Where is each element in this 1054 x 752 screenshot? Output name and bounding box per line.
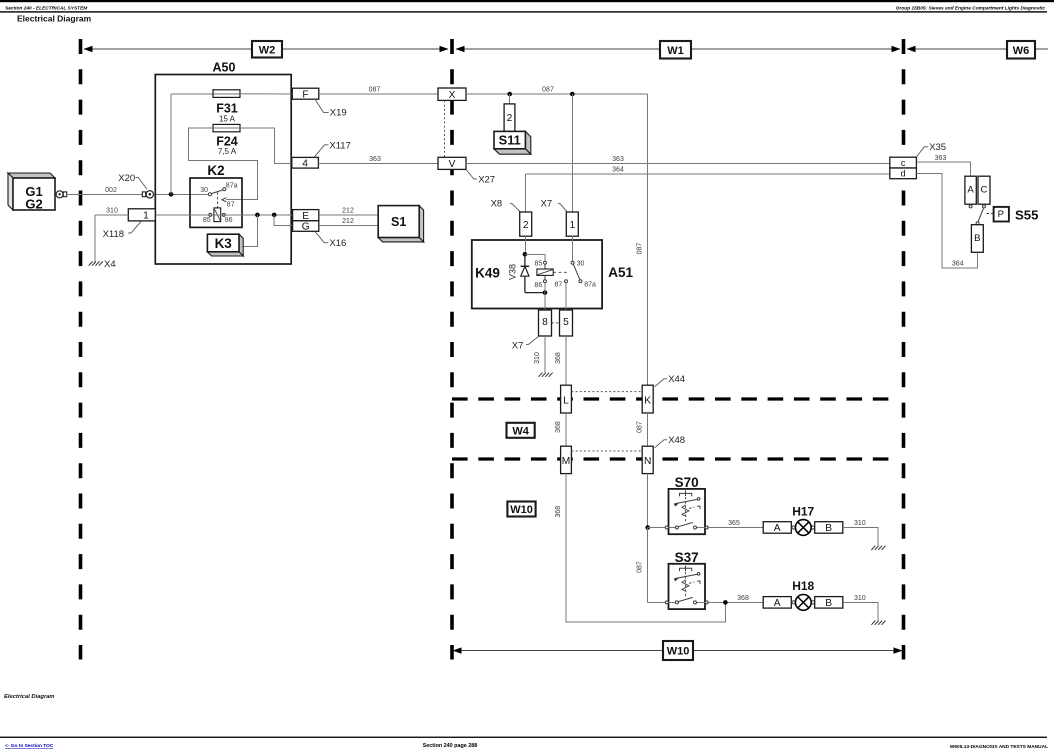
- S55 switch pins: [969, 205, 972, 208]
- svg-text:8: 8: [542, 317, 548, 328]
- node junction to X7-1: [570, 92, 575, 97]
- svg-text:V: V: [449, 159, 456, 170]
- svg-text:<- Go to Section TOC: <- Go to Section TOC: [5, 743, 54, 749]
- svg-text:H18: H18: [792, 579, 814, 593]
- wire X8-2 into A51: [525, 236, 527, 254]
- dashed link pins 8-5: [552, 322, 560, 324]
- switch S1 3-D box: [419, 206, 423, 242]
- wire down to S11 connector 2: [509, 94, 511, 104]
- connector X7 pin 5: [560, 310, 573, 336]
- wire 363 V to connector c: [466, 162, 890, 164]
- wire into S37: [648, 601, 669, 603]
- svg-text:K: K: [644, 395, 651, 406]
- label X48: [655, 440, 668, 448]
- connector S55 pin B: [971, 225, 983, 253]
- svg-text:K49: K49: [475, 266, 500, 281]
- span arrow W10 bottom: [453, 650, 902, 652]
- svg-text:X27: X27: [478, 175, 495, 186]
- K2 pin 85: [209, 213, 212, 216]
- connector H17 pin A: [763, 522, 791, 534]
- svg-text:Section 240 page 288: Section 240 page 288: [423, 743, 478, 749]
- K2 actuator dashed link: [217, 192, 219, 208]
- span arrow W1: [456, 48, 900, 50]
- connector 2 of S11: [504, 104, 515, 131]
- wire 087 K to N: [647, 413, 649, 446]
- connector X48 pin M: [561, 446, 572, 473]
- S37 boundary pins: [665, 601, 668, 604]
- connector H17 pin B: [815, 522, 843, 534]
- wire 212 G to S1: [319, 224, 378, 226]
- wire down to X8 pin 2: [525, 174, 527, 212]
- label X117: [314, 145, 328, 157]
- label X35: [916, 147, 928, 157]
- svg-text:X20: X20: [118, 173, 135, 184]
- wire X7-1 into A51 pin 30: [571, 236, 573, 261]
- relay module A51 outline: [472, 240, 602, 309]
- harness boundary dashed line W10 top: [452, 457, 889, 460]
- node junction diode branch: [523, 252, 528, 257]
- K2 pin 86: [222, 213, 225, 216]
- connector X on W2/W1 boundary: [438, 88, 466, 100]
- A51 pin 87: [565, 280, 568, 283]
- harness boundary dashed line W1/W6: [902, 39, 906, 660]
- connector X44 pin L: [561, 385, 572, 413]
- connector S55 pin P: [994, 207, 1009, 222]
- ground H18: [871, 621, 875, 625]
- node junction coil return: [543, 290, 548, 295]
- svg-text:363: 363: [369, 156, 381, 163]
- svg-text:087: 087: [542, 86, 554, 93]
- S70 contacts: [669, 527, 676, 529]
- wire 368 L to M: [565, 413, 567, 446]
- wire X118 row through K2 coil to connector E: [155, 214, 292, 216]
- S37 internal mechanism: [680, 568, 692, 571]
- wire 364 X8 to connector d: [526, 173, 890, 175]
- ground below pin 8: [539, 373, 543, 377]
- wire 087 junction down to S37: [647, 528, 649, 603]
- svg-text:S37: S37: [675, 550, 699, 565]
- svg-text:W4: W4: [512, 425, 529, 437]
- connector X7 pin 1: [566, 212, 578, 236]
- A51 actuator dashed link: [553, 271, 569, 273]
- wire down to X7 pin 1: [571, 94, 573, 212]
- svg-text:W605.13-DIAGNOSIS AND TESTS MA: W605.13-DIAGNOSIS AND TESTS MANUAL: [950, 744, 1048, 750]
- svg-text:30: 30: [577, 260, 585, 267]
- svg-text:2: 2: [523, 220, 529, 231]
- dotted link X to V: [444, 100, 446, 157]
- svg-text:A: A: [774, 598, 781, 609]
- label X16: [315, 232, 328, 243]
- svg-text:15 A: 15 A: [219, 114, 236, 123]
- dotted link L-K: [571, 391, 642, 393]
- svg-text:363: 363: [935, 155, 947, 162]
- wire junction to S70: [648, 527, 669, 529]
- A51 coil pin 86: [544, 280, 547, 283]
- connector V on W2/W1 boundary: [438, 157, 466, 169]
- svg-text:Group 15B05: Sieves and Engine: Group 15B05: Sieves and Engine Compartme…: [896, 5, 1046, 11]
- svg-text:2: 2: [507, 113, 513, 124]
- svg-text:002: 002: [105, 187, 117, 194]
- svg-text:87: 87: [227, 201, 235, 208]
- harness boundary dashed line W2 left: [79, 39, 83, 660]
- svg-text:363: 363: [612, 156, 624, 163]
- wire junction down to K3: [243, 215, 257, 247]
- S55 actuator dashed link: [987, 213, 994, 215]
- svg-text:W2: W2: [259, 44, 276, 56]
- switch S11 3-D box: [525, 131, 530, 154]
- connector X48 pin N: [642, 446, 653, 473]
- svg-text:S55: S55: [1015, 207, 1038, 222]
- svg-text:G2: G2: [25, 197, 42, 212]
- wire 363 connector 4 to V: [318, 162, 438, 164]
- node junction to S11: [507, 92, 512, 97]
- svg-text:364: 364: [612, 167, 624, 174]
- span arrow W6: [907, 48, 1048, 50]
- svg-text:30: 30: [200, 187, 208, 194]
- connector d on W1/W6 boundary: [890, 168, 917, 179]
- label W2: [252, 41, 282, 58]
- svg-text:B: B: [825, 598, 832, 609]
- harness boundary dashed line W2/W1: [450, 39, 454, 660]
- label X27: [466, 169, 477, 179]
- generator G1 G2: [8, 173, 55, 178]
- svg-text:368: 368: [555, 421, 562, 433]
- svg-text:85: 85: [535, 260, 543, 267]
- svg-text:S70: S70: [675, 475, 699, 490]
- svg-text:364: 364: [952, 261, 964, 268]
- svg-text:Electrical Diagram: Electrical Diagram: [4, 694, 55, 700]
- K2 coil: [214, 208, 221, 222]
- wire 310 H18 to ground: [843, 602, 878, 620]
- svg-text:P: P: [998, 209, 1004, 220]
- svg-text:X: X: [449, 90, 456, 101]
- svg-text:1: 1: [143, 211, 149, 222]
- connector c on W1/W6 boundary: [890, 157, 917, 168]
- svg-text:X7: X7: [512, 340, 524, 351]
- svg-text:Section 240 - ELECTRICAL SYSTE: Section 240 - ELECTRICAL SYSTEM: [5, 5, 88, 11]
- fuse F24: [213, 124, 240, 131]
- svg-text:W6: W6: [1013, 45, 1030, 57]
- page header bar: [0, 0, 1054, 2]
- A51 pin 87a: [579, 280, 582, 283]
- svg-text:310: 310: [534, 352, 541, 364]
- wire junction down to connector G: [274, 215, 292, 226]
- label W10 left: [507, 502, 535, 517]
- svg-text:1: 1: [569, 220, 575, 231]
- svg-text:A51: A51: [608, 265, 633, 280]
- span arrow W2: [84, 48, 448, 50]
- svg-text:86: 86: [225, 217, 233, 224]
- svg-text:4: 4: [302, 158, 308, 169]
- wire 087 N down to S70 junction: [647, 474, 649, 528]
- connector 4 on A50: [292, 157, 319, 168]
- harness boundary dashed line W4 top: [452, 397, 889, 400]
- label X19: [315, 99, 329, 112]
- wire X20 to K2 pin 30: [154, 193, 209, 195]
- wire junction up to fuse F31: [170, 94, 172, 195]
- S70 boundary pins: [665, 526, 668, 529]
- svg-text:d: d: [901, 169, 906, 179]
- svg-text:C: C: [981, 185, 988, 196]
- label W6: [1007, 41, 1035, 59]
- K2 switch blade 30-87a: [211, 190, 223, 194]
- connector F on A50: [292, 88, 319, 99]
- svg-text:87a: 87a: [226, 183, 238, 190]
- svg-text:368: 368: [555, 506, 562, 518]
- A51 coil: [544, 264, 546, 269]
- S37 contacts: [669, 601, 676, 603]
- wire diode to coil return: [525, 292, 545, 294]
- node junction F31 branch: [169, 192, 174, 197]
- svg-text:G: G: [302, 222, 310, 233]
- svg-text:310: 310: [106, 207, 118, 214]
- svg-text:X48: X48: [668, 435, 685, 446]
- svg-text:X19: X19: [330, 107, 347, 118]
- svg-text:087: 087: [636, 561, 643, 573]
- connector H18 pin A: [763, 597, 791, 609]
- label W1: [660, 41, 691, 59]
- svg-text:c: c: [901, 158, 906, 168]
- wire F24 right to connector 4: [240, 128, 293, 163]
- svg-text:W10: W10: [510, 504, 533, 516]
- wire 310 H17 to ground: [843, 528, 878, 546]
- label W4: [507, 423, 535, 438]
- wire coil return down to pin 8: [544, 293, 546, 310]
- svg-text:B: B: [825, 523, 832, 534]
- svg-text:F: F: [302, 89, 308, 100]
- svg-text:087: 087: [636, 421, 643, 433]
- svg-text:X118: X118: [103, 229, 124, 240]
- wire 087 X to corner: [466, 93, 648, 95]
- svg-text:X4: X4: [104, 259, 116, 270]
- svg-text:A50: A50: [213, 61, 236, 75]
- A51 switch blade: [573, 264, 580, 280]
- wire 365 S70 to H17: [707, 527, 763, 529]
- wire pin 87 down to pin 5: [565, 283, 567, 310]
- svg-text:310: 310: [854, 595, 866, 602]
- K2 pin 87a: [223, 188, 226, 191]
- svg-text:087: 087: [636, 243, 643, 255]
- svg-text:Electrical Diagram: Electrical Diagram: [17, 14, 92, 24]
- connector G on A50: [293, 221, 319, 232]
- connector H18 pin B: [815, 597, 843, 609]
- connector S55 pin C: [978, 176, 990, 204]
- dotted link M-N: [571, 450, 642, 452]
- svg-text:365: 365: [728, 520, 740, 527]
- ring terminal at G1: [56, 191, 63, 198]
- svg-text:H17: H17: [792, 504, 814, 518]
- wire 212 E to S1: [319, 214, 378, 216]
- S55 switch blade: [978, 208, 984, 222]
- svg-text:A: A: [967, 185, 974, 196]
- wire 310 pin 8 to ground: [544, 336, 546, 373]
- wire 310 to ground X4: [95, 214, 128, 216]
- svg-text:86: 86: [535, 282, 543, 289]
- svg-text:5: 5: [563, 317, 569, 328]
- svg-text:87: 87: [555, 282, 563, 289]
- svg-text:X8: X8: [491, 198, 503, 209]
- svg-text:B: B: [974, 233, 980, 244]
- svg-text:S1: S1: [391, 215, 406, 229]
- svg-text:X44: X44: [668, 374, 685, 385]
- wire 002: [67, 193, 143, 195]
- wire 368 S37 to H18: [707, 601, 763, 603]
- wire junction to coil 85: [525, 254, 545, 261]
- svg-text:X16: X16: [329, 238, 346, 249]
- svg-text:W10: W10: [667, 646, 690, 658]
- connector E on A50: [293, 210, 319, 221]
- svg-text:M: M: [562, 456, 571, 467]
- svg-text:X7: X7: [541, 198, 553, 209]
- wire 087 corner down to K: [647, 94, 649, 385]
- wire 368 pin 5 to L: [565, 336, 567, 385]
- A51 coil pin 85: [544, 261, 547, 264]
- connector S55 pin A: [965, 176, 976, 204]
- node junction S70: [645, 525, 650, 530]
- svg-text:V38: V38: [508, 264, 518, 280]
- label X44: [655, 379, 668, 387]
- svg-text:S11: S11: [499, 133, 521, 148]
- svg-text:W1: W1: [667, 45, 684, 57]
- ground H17: [871, 546, 875, 550]
- K2 pin 30: [208, 193, 211, 196]
- svg-text:L: L: [563, 395, 569, 406]
- wire 368 M down around to H18 junction: [566, 474, 725, 622]
- node junction H18: [723, 600, 728, 605]
- A51 pin 30: [571, 261, 574, 264]
- svg-text:N: N: [644, 456, 651, 467]
- ring terminal X20: [142, 192, 145, 197]
- svg-text:368: 368: [555, 352, 562, 364]
- node junction to K3: [255, 213, 260, 218]
- connector X7 pin 8: [539, 310, 552, 336]
- fuse F31: [213, 93, 240, 95]
- wire 087 F to X: [319, 93, 438, 95]
- S70 internal mechanism: [680, 493, 692, 496]
- svg-text:87a: 87a: [584, 282, 596, 289]
- svg-text:X35: X35: [929, 142, 946, 153]
- relay K3 3-D box: [239, 234, 243, 256]
- ground X4: [89, 261, 93, 265]
- svg-text:7,5 A: 7,5 A: [218, 147, 237, 156]
- svg-text:K2: K2: [207, 163, 224, 178]
- svg-text:85: 85: [203, 217, 211, 224]
- diode V38: [524, 254, 526, 266]
- svg-text:K3: K3: [215, 236, 233, 251]
- wire 364 d to B: [916, 173, 977, 268]
- label W10 bottom: [663, 641, 693, 660]
- connector X8 pin 2: [520, 212, 532, 236]
- wire F31 to connector F: [240, 93, 295, 95]
- node junction to connector G: [272, 213, 277, 218]
- svg-text:310: 310: [854, 520, 866, 527]
- svg-text:087: 087: [369, 86, 381, 93]
- wire 363 c to A: [916, 162, 970, 176]
- svg-text:212: 212: [342, 207, 354, 214]
- svg-text:212: 212: [342, 218, 354, 225]
- wire F24 left to K2 pin 87: [188, 128, 257, 200]
- connector X118 pin 1: [128, 209, 155, 221]
- connector X44 pin K: [642, 385, 653, 413]
- svg-text:A: A: [774, 523, 781, 534]
- K2 pin 87: [222, 198, 226, 202]
- svg-text:368: 368: [737, 595, 749, 602]
- svg-text:X117: X117: [329, 140, 350, 151]
